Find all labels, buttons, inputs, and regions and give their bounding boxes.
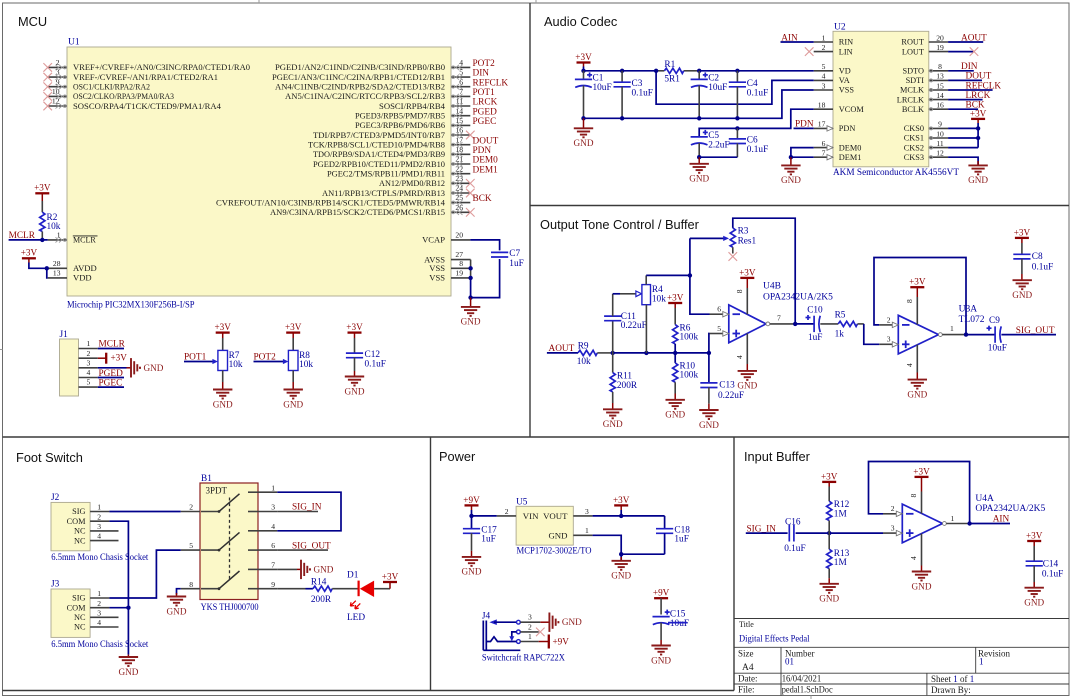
junction VSS pin8	[468, 266, 472, 270]
wire VA tap	[656, 71, 814, 104]
capacitor C14	[1026, 561, 1043, 566]
ground under C1	[583, 118, 585, 128]
capacitor C9	[987, 326, 1002, 343]
svg-text:1uF: 1uF	[509, 259, 523, 269]
section divider footswitch / power	[430, 437, 432, 691]
svg-text:MCP1702-3002E/TO: MCP1702-3002E/TO	[517, 547, 592, 557]
svg-text:11: 11	[456, 97, 464, 106]
svg-text:3: 3	[891, 524, 895, 533]
svg-text:3: 3	[56, 68, 60, 77]
potentiometer R8	[288, 350, 298, 370]
capacitor C12	[346, 353, 363, 358]
svg-text:GND: GND	[548, 530, 567, 540]
svg-text:PDN: PDN	[473, 146, 492, 156]
wire SIG_OUT	[277, 549, 328, 551]
svg-text:14: 14	[936, 91, 944, 100]
svg-text:J1: J1	[60, 330, 69, 340]
pin 23	[451, 182, 470, 184]
svg-text:TCK/RPB8/SCL1/CTED10/PMD4/RB8: TCK/RPB8/SCL1/CTED10/PMD4/RB8	[308, 141, 445, 150]
svg-text:14: 14	[455, 106, 463, 115]
svg-text:CKS3: CKS3	[904, 153, 924, 162]
U4B pin 4	[746, 333, 748, 364]
svg-text:C7: C7	[509, 249, 520, 259]
ground under U3A	[916, 373, 918, 380]
svg-text:20: 20	[936, 33, 944, 42]
svg-text:VDD: VDD	[73, 273, 92, 283]
svg-text:Drawn By:: Drawn By:	[931, 685, 971, 695]
pin 4	[451, 66, 470, 68]
svg-text:TL072: TL072	[959, 315, 985, 325]
capacitor C15	[653, 610, 670, 625]
capacitor C5	[691, 130, 708, 145]
svg-text:2: 2	[97, 599, 101, 608]
ground CKS3	[977, 161, 979, 165]
svg-text:SOSCI/RPB4/RB4: SOSCI/RPB4/RB4	[379, 102, 445, 111]
svg-text:VSS: VSS	[429, 263, 445, 273]
J1 pin 1	[79, 348, 98, 350]
MCU U1 body	[67, 47, 451, 296]
power +3V above AVDD	[21, 248, 38, 259]
regulator U5 body	[516, 506, 573, 545]
svg-text:D1: D1	[347, 570, 359, 580]
J2 pin 4	[90, 540, 118, 542]
ground J4 (rotated)	[549, 613, 582, 632]
pin 12	[48, 105, 67, 107]
U4A pin 8	[921, 492, 923, 514]
resistor R10	[674, 353, 676, 363]
svg-text:12: 12	[52, 97, 60, 106]
wire B1 pin1 to pin4	[277, 492, 341, 531]
pin 22	[451, 173, 470, 175]
pin 15	[451, 124, 470, 126]
ground under R7	[222, 382, 224, 390]
svg-text:3: 3	[585, 507, 589, 516]
svg-text:4: 4	[905, 363, 914, 367]
zone tick top 2	[535, 0, 537, 3]
svg-text:Input Buffer: Input Buffer	[744, 449, 811, 464]
svg-text:0.1uF: 0.1uF	[1042, 570, 1063, 580]
power +3V codec	[575, 52, 592, 63]
svg-text:1: 1	[585, 526, 589, 535]
svg-text:19: 19	[936, 43, 944, 52]
svg-text:1: 1	[271, 483, 275, 492]
svg-text:AN9/C3INA/RPB15/SCK2/CTED6/PMC: AN9/C3INA/RPB15/SCK2/CTED6/PMCS1/RB15	[270, 208, 445, 217]
svg-text:C13: C13	[719, 381, 735, 391]
ground below jacks	[127, 655, 129, 657]
svg-text:VCAP: VCAP	[422, 235, 445, 245]
svg-text:R9: R9	[578, 341, 589, 351]
op-amp U4B	[729, 305, 766, 343]
capacitor C18	[664, 516, 666, 529]
svg-text:VA: VA	[839, 76, 850, 85]
wire out to C9	[966, 334, 995, 336]
svg-text:5R1: 5R1	[664, 75, 680, 85]
svg-text:13: 13	[53, 268, 61, 277]
power +3V out	[613, 495, 630, 506]
U2 pin 7 DEM1	[814, 156, 833, 158]
J3 pin 1	[90, 597, 109, 599]
svg-text:16: 16	[936, 101, 944, 110]
pin 1 MCLR	[48, 239, 67, 241]
svg-text:Title: Title	[739, 620, 754, 629]
power +3V above C12	[346, 322, 363, 333]
power +9V above C15	[653, 588, 670, 599]
svg-text:SDTI: SDTI	[906, 76, 925, 85]
wire U3A feedback	[874, 258, 966, 335]
svg-text:DEM0: DEM0	[839, 143, 862, 152]
svg-text:0.1uF: 0.1uF	[365, 359, 386, 369]
svg-text:4: 4	[909, 556, 918, 560]
svg-text:RIN: RIN	[839, 38, 853, 47]
svg-text:Date:: Date:	[738, 674, 758, 684]
svg-text:Switchcraft RAPC722X: Switchcraft RAPC722X	[482, 652, 565, 663]
junction C3 top	[620, 69, 624, 73]
svg-text:COM: COM	[67, 603, 87, 612]
svg-text:2: 2	[887, 315, 891, 324]
svg-text:R5: R5	[835, 310, 846, 320]
svg-text:4: 4	[459, 58, 463, 67]
svg-text:NC: NC	[74, 527, 86, 536]
op-amp U3A	[898, 315, 938, 354]
wire U4A feedback	[869, 462, 970, 524]
LED D1	[360, 581, 374, 597]
svg-text:DEM0: DEM0	[473, 156, 499, 166]
svg-text:R14: R14	[311, 577, 327, 587]
svg-text:8: 8	[909, 494, 918, 498]
svg-text:A4: A4	[742, 663, 754, 673]
svg-text:AN4/C1INB/C2IND/RPB2/SDA2/CTED: AN4/C1INB/C2IND/RPB2/SDA2/CTED13/RB2	[275, 83, 445, 92]
svg-text:1uF: 1uF	[481, 535, 495, 545]
resistor R9	[578, 350, 597, 355]
wire VCAP to C7	[470, 240, 499, 298]
junction R4	[644, 351, 648, 355]
svg-text:SDTO: SDTO	[902, 67, 924, 76]
junction C11/R11	[611, 351, 615, 355]
svg-text:9: 9	[56, 77, 60, 86]
junction +3V out	[619, 514, 623, 518]
wire SIG_IN	[746, 532, 788, 534]
svg-text:200R: 200R	[311, 595, 332, 605]
svg-text:23: 23	[455, 174, 463, 183]
svg-text:MCLR: MCLR	[73, 236, 96, 245]
svg-text:C15: C15	[670, 610, 686, 620]
wire CKS0-CKS2 to +3V	[948, 123, 978, 148]
svg-text:R1: R1	[664, 60, 675, 70]
svg-text:LRCK: LRCK	[473, 98, 498, 108]
svg-text:PGEC1/AN3/C1INC/C2INA/RPB1/CTE: PGEC1/AN3/C1INC/C2INA/RPB1/CTED12/RB1	[272, 73, 445, 82]
wire SIG_OUT	[1001, 334, 1056, 336]
svg-text:6: 6	[459, 77, 463, 86]
svg-text:CKS1: CKS1	[904, 134, 924, 143]
wire GND pin to C18 bottom	[593, 535, 665, 561]
junction CKS0	[976, 126, 980, 130]
svg-text:U1: U1	[68, 38, 80, 48]
ground under U5	[620, 557, 622, 561]
svg-text:VCOM: VCOM	[839, 105, 865, 114]
svg-text:AVDD: AVDD	[73, 263, 97, 273]
ground under U4B	[746, 364, 748, 371]
svg-text:DEM1: DEM1	[473, 165, 499, 175]
svg-text:NC: NC	[74, 623, 86, 632]
svg-text:SOSCO/RPA4/T1CK/CTED9/PMA1/RA4: SOSCO/RPA4/T1CK/CTED9/PMA1/RA4	[73, 102, 221, 111]
svg-text:8: 8	[735, 289, 744, 293]
power +3V above R8	[285, 322, 302, 333]
wire J3 SIG to B1 pin5	[109, 550, 180, 598]
svg-text:2: 2	[505, 507, 509, 516]
svg-text:8: 8	[189, 580, 193, 589]
resistor R14	[313, 586, 332, 591]
svg-text:CKS0: CKS0	[904, 124, 924, 133]
junction C1 top	[581, 69, 585, 73]
wire R3 wiper net	[690, 238, 710, 314]
U3A pin 4	[916, 345, 918, 373]
pin 19 VSS	[451, 277, 471, 279]
pin 21	[451, 163, 470, 165]
pin 18	[451, 153, 470, 155]
R3 bottom nc	[732, 247, 734, 253]
U2 pin 2 LIN	[814, 51, 833, 53]
wire R4 top to feedback node	[646, 274, 690, 276]
junction pin7	[793, 322, 797, 326]
capacitor C4	[736, 71, 738, 83]
svg-text:3: 3	[528, 613, 532, 622]
J1 pin 4	[79, 377, 98, 379]
U2 pin 16 BCLK	[929, 108, 948, 110]
U2 pin 13 SDTI	[929, 79, 948, 81]
svg-text:4: 4	[822, 72, 826, 81]
svg-text:POT2: POT2	[473, 59, 496, 69]
svg-text:OPA2342UA/2K5: OPA2342UA/2K5	[975, 504, 1045, 514]
svg-text:10k: 10k	[47, 222, 61, 232]
wire B1 pin9 to R14	[277, 588, 305, 590]
svg-text:6: 6	[822, 139, 826, 148]
svg-text:AKM Semiconductor AK4556VT: AKM Semiconductor AK4556VT	[833, 168, 959, 178]
junction R1 left	[654, 69, 658, 73]
svg-text:U3A: U3A	[959, 304, 978, 314]
wire CKS3 to gnd	[948, 157, 978, 165]
connector J3	[51, 589, 90, 637]
J1 pin 5	[79, 386, 98, 388]
power +3V LED	[382, 571, 399, 582]
wire +3V to AVDD and VDD	[29, 263, 48, 278]
svg-text:PGED1/AN2/C1IND/C2INB/C3IND/RP: PGED1/AN2/C1IND/C2INB/C3IND/RPB0/RB0	[275, 63, 445, 72]
U3A pin 3	[879, 343, 892, 345]
svg-text:1: 1	[950, 324, 954, 333]
ground under C5	[698, 157, 700, 164]
B1 pin 8	[181, 588, 200, 590]
svg-text:200R: 200R	[617, 381, 638, 391]
svg-text:10k: 10k	[577, 357, 591, 367]
svg-text:6: 6	[717, 305, 721, 314]
svg-text:BCLK: BCLK	[902, 105, 924, 114]
svg-text:MCU: MCU	[18, 14, 47, 29]
svg-text:2: 2	[87, 349, 91, 358]
capacitor C11	[612, 321, 614, 353]
svg-text:2: 2	[822, 43, 826, 52]
svg-text:100k: 100k	[680, 371, 699, 381]
svg-text:5: 5	[717, 324, 721, 333]
svg-text:J4: J4	[482, 612, 491, 622]
svg-text:+9V: +9V	[553, 636, 570, 646]
zone tick bottom	[810, 696, 812, 699]
potentiometer R7	[218, 350, 228, 370]
capacitor C16	[788, 525, 790, 542]
pin 25	[451, 202, 470, 204]
svg-text:Output Tone Control / Buffer: Output Tone Control / Buffer	[540, 217, 700, 232]
wire LED to +3V	[374, 588, 390, 590]
svg-text:4: 4	[87, 368, 91, 377]
svg-text:16/04/2021: 16/04/2021	[782, 674, 822, 684]
wire DOUT	[948, 79, 982, 81]
U2 pin 1 RIN	[814, 41, 833, 43]
pin 26	[451, 211, 470, 213]
potentiometer R4	[642, 285, 651, 305]
svg-text:5: 5	[87, 378, 91, 387]
U3A pin 8	[916, 297, 918, 325]
junction C3 bottom	[620, 116, 624, 120]
J2 pin 1	[90, 511, 109, 513]
wire MCLR to pin 1	[9, 239, 48, 241]
ground under C15	[660, 640, 662, 646]
U3A pin 1	[939, 333, 943, 337]
svg-text:100k: 100k	[680, 333, 699, 343]
svg-text:U4B: U4B	[763, 282, 781, 292]
svg-text:C14: C14	[1043, 560, 1059, 570]
svg-text:VREF+/CVREF+/AN0/C3INC/RPA0/CT: VREF+/CVREF+/AN0/C3INC/RPA0/CTED1/RA0	[73, 63, 250, 72]
svg-text:3: 3	[97, 522, 101, 531]
J4 pin 1	[517, 640, 521, 644]
svg-text:NC: NC	[74, 536, 86, 545]
svg-text:28: 28	[53, 259, 61, 268]
svg-text:21: 21	[455, 155, 463, 164]
wire AOUT	[948, 41, 983, 43]
junction CKS1	[976, 136, 980, 140]
U2 pin 14 LRCLK	[929, 99, 948, 101]
svg-text:3: 3	[822, 81, 826, 90]
pin 16	[451, 134, 470, 136]
wire J3 COM	[109, 607, 128, 609]
B1 pin 1	[258, 491, 277, 493]
+3V above U3A	[909, 277, 926, 288]
U4A pin 4	[921, 534, 923, 566]
svg-text:C16: C16	[785, 518, 801, 528]
svg-text:CVREFOUT/AN10/C3INB/RPB14/SCK1: CVREFOUT/AN10/C3INB/RPB14/SCK1/CTED5/PMW…	[216, 198, 445, 207]
svg-text:0.1uF: 0.1uF	[784, 544, 805, 554]
svg-text:VSS: VSS	[839, 86, 855, 95]
wire B1 pin8 to ground	[177, 589, 181, 595]
wire DIN	[948, 70, 974, 72]
svg-text:1: 1	[97, 503, 101, 512]
svg-text:12: 12	[936, 149, 944, 158]
svg-text:U4A: U4A	[975, 494, 994, 504]
U2 pin 10 CKS1	[929, 137, 948, 139]
pin 27 AVSS	[451, 259, 471, 261]
U2 pin 18 VCOM	[814, 108, 833, 110]
power +3V at J1 pin2	[98, 357, 106, 359]
svg-text:20: 20	[455, 230, 463, 239]
R4 bottom lead	[645, 305, 647, 353]
svg-text:Size: Size	[738, 649, 754, 659]
svg-text:DEM1: DEM1	[839, 153, 862, 162]
svg-text:0.22uF: 0.22uF	[718, 391, 744, 401]
wire LRCK	[948, 99, 983, 101]
svg-text:2: 2	[891, 504, 895, 513]
svg-text:1: 1	[87, 339, 91, 348]
J1 pin 3	[79, 367, 98, 369]
ground under C8	[1021, 274, 1023, 280]
wire LOUT nc	[948, 51, 974, 53]
svg-text:LOUT: LOUT	[902, 47, 924, 56]
capacitor C1	[583, 71, 585, 80]
wire AVSS/VSS bus	[470, 260, 472, 278]
wire DEM0/DEM1	[791, 148, 814, 158]
svg-text:VSS: VSS	[429, 273, 445, 283]
capacitor C2	[698, 71, 700, 80]
junction VSS pin19	[468, 276, 472, 280]
B1 pin 6	[258, 549, 277, 551]
svg-text:1uF: 1uF	[674, 535, 688, 545]
U2 pin 5 VD	[814, 70, 833, 72]
J3 pin 3	[90, 616, 118, 618]
svg-text:COM: COM	[67, 517, 87, 526]
zone tick top 1	[258, 0, 260, 3]
svg-text:Sheet 1 of 1: Sheet 1 of 1	[931, 674, 974, 684]
svg-text:4: 4	[97, 618, 101, 627]
switch B1 body	[200, 483, 258, 600]
wire R5 to U3A pin3	[864, 324, 880, 344]
U4A pin 2	[883, 513, 896, 515]
wire VSS rail	[584, 90, 814, 118]
svg-text:1: 1	[951, 514, 955, 523]
ground B1 pin8	[176, 593, 178, 597]
wire C16 to pin3	[796, 532, 883, 534]
svg-text:8: 8	[938, 62, 942, 71]
svg-text:19: 19	[455, 268, 463, 277]
B1 switch blade 3	[201, 588, 219, 590]
wire VCOM to C5/C6	[699, 109, 814, 137]
svg-text:ROUT: ROUT	[901, 38, 924, 47]
wire SIG_IN	[277, 511, 318, 513]
ground under R8	[292, 382, 294, 390]
power +3V above C14	[1026, 530, 1043, 541]
capacitor C7	[491, 252, 508, 257]
svg-text:R3: R3	[738, 227, 749, 237]
resistor R13	[828, 533, 830, 549]
svg-text:10k: 10k	[299, 360, 313, 370]
junction C1 bottom	[581, 116, 585, 120]
svg-text:2.2uF: 2.2uF	[708, 140, 729, 150]
section divider power / input buffer	[733, 437, 735, 691]
svg-text:J3: J3	[51, 580, 60, 590]
title block frame	[734, 618, 1069, 620]
ground B1 pin7 (rotated)	[301, 560, 334, 579]
svg-text:YKS THJ000700: YKS THJ000700	[201, 603, 259, 613]
wire POT2 to R8 wiper	[254, 361, 284, 363]
svg-text:4: 4	[271, 522, 275, 531]
pin 14	[451, 115, 470, 117]
junction AVDD	[45, 266, 49, 270]
svg-text:10: 10	[936, 129, 944, 138]
svg-text:PGED3/RPB5/PMD7/RB5: PGED3/RPB5/PMD7/RB5	[355, 112, 445, 121]
pin 13 VDD	[48, 277, 67, 279]
wire B1 pin7 to ground	[277, 568, 297, 570]
pin 9	[48, 86, 67, 88]
svg-text:5: 5	[822, 62, 826, 71]
pin 2	[48, 66, 67, 68]
svg-text:1: 1	[979, 657, 984, 667]
svg-text:2: 2	[189, 503, 193, 512]
+3V above R6	[667, 292, 684, 303]
